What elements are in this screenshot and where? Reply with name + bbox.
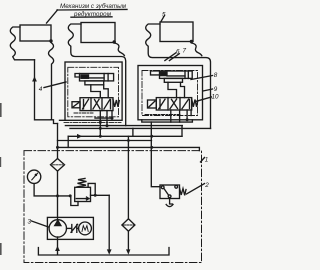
svg-text:1: 1 (205, 157, 209, 164)
svg-text:5: 5 (162, 11, 166, 18)
svg-text:7: 7 (183, 48, 187, 55)
svg-text:9: 9 (214, 86, 218, 93)
svg-text:3: 3 (28, 218, 32, 225)
svg-text:8: 8 (214, 72, 218, 79)
svg-text:Механизм с зубчатым: Механизм с зубчатым (60, 3, 127, 10)
svg-text:6: 6 (176, 48, 180, 55)
svg-text:редуктором: редуктором (73, 11, 112, 18)
svg-text:10: 10 (212, 94, 220, 101)
svg-text:2: 2 (204, 182, 209, 189)
svg-text:4: 4 (39, 86, 43, 93)
